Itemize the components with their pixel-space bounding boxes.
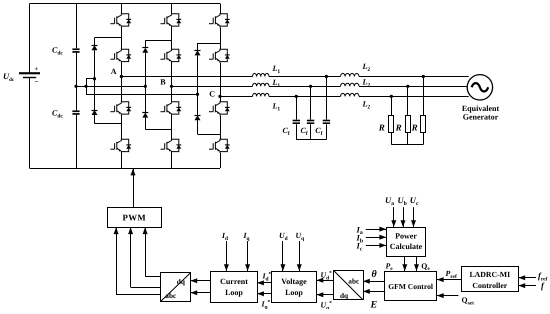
svg-text:abc: abc [165,291,177,300]
svg-text:abc: abc [348,276,360,285]
svg-text:B: B [160,77,166,86]
svg-text:+: + [35,66,39,73]
svg-text:Voltage: Voltage [281,277,307,286]
svg-text:−: − [35,78,39,86]
svg-text:Current: Current [220,277,248,286]
svg-text:Controller: Controller [472,281,507,290]
svg-text:C: C [209,90,215,99]
svg-text:Power: Power [395,232,417,241]
svg-text:GFM Control: GFM Control [388,282,433,291]
svg-text:R: R [395,122,402,132]
svg-text:E: E [370,300,378,310]
svg-text:R: R [411,122,418,132]
svg-text:dq: dq [340,291,348,300]
svg-text:A: A [111,67,117,76]
svg-text:LADRC-MI: LADRC-MI [469,270,510,279]
svg-text:Generator: Generator [463,112,499,121]
svg-text:R: R [378,122,385,132]
svg-text:Calculate: Calculate [390,242,423,251]
svg-text:dq: dq [177,277,185,286]
svg-text:Loop: Loop [225,288,243,297]
svg-text:θ: θ [372,269,378,280]
svg-text:Loop: Loop [285,288,303,297]
svg-text:PWM: PWM [122,213,146,223]
